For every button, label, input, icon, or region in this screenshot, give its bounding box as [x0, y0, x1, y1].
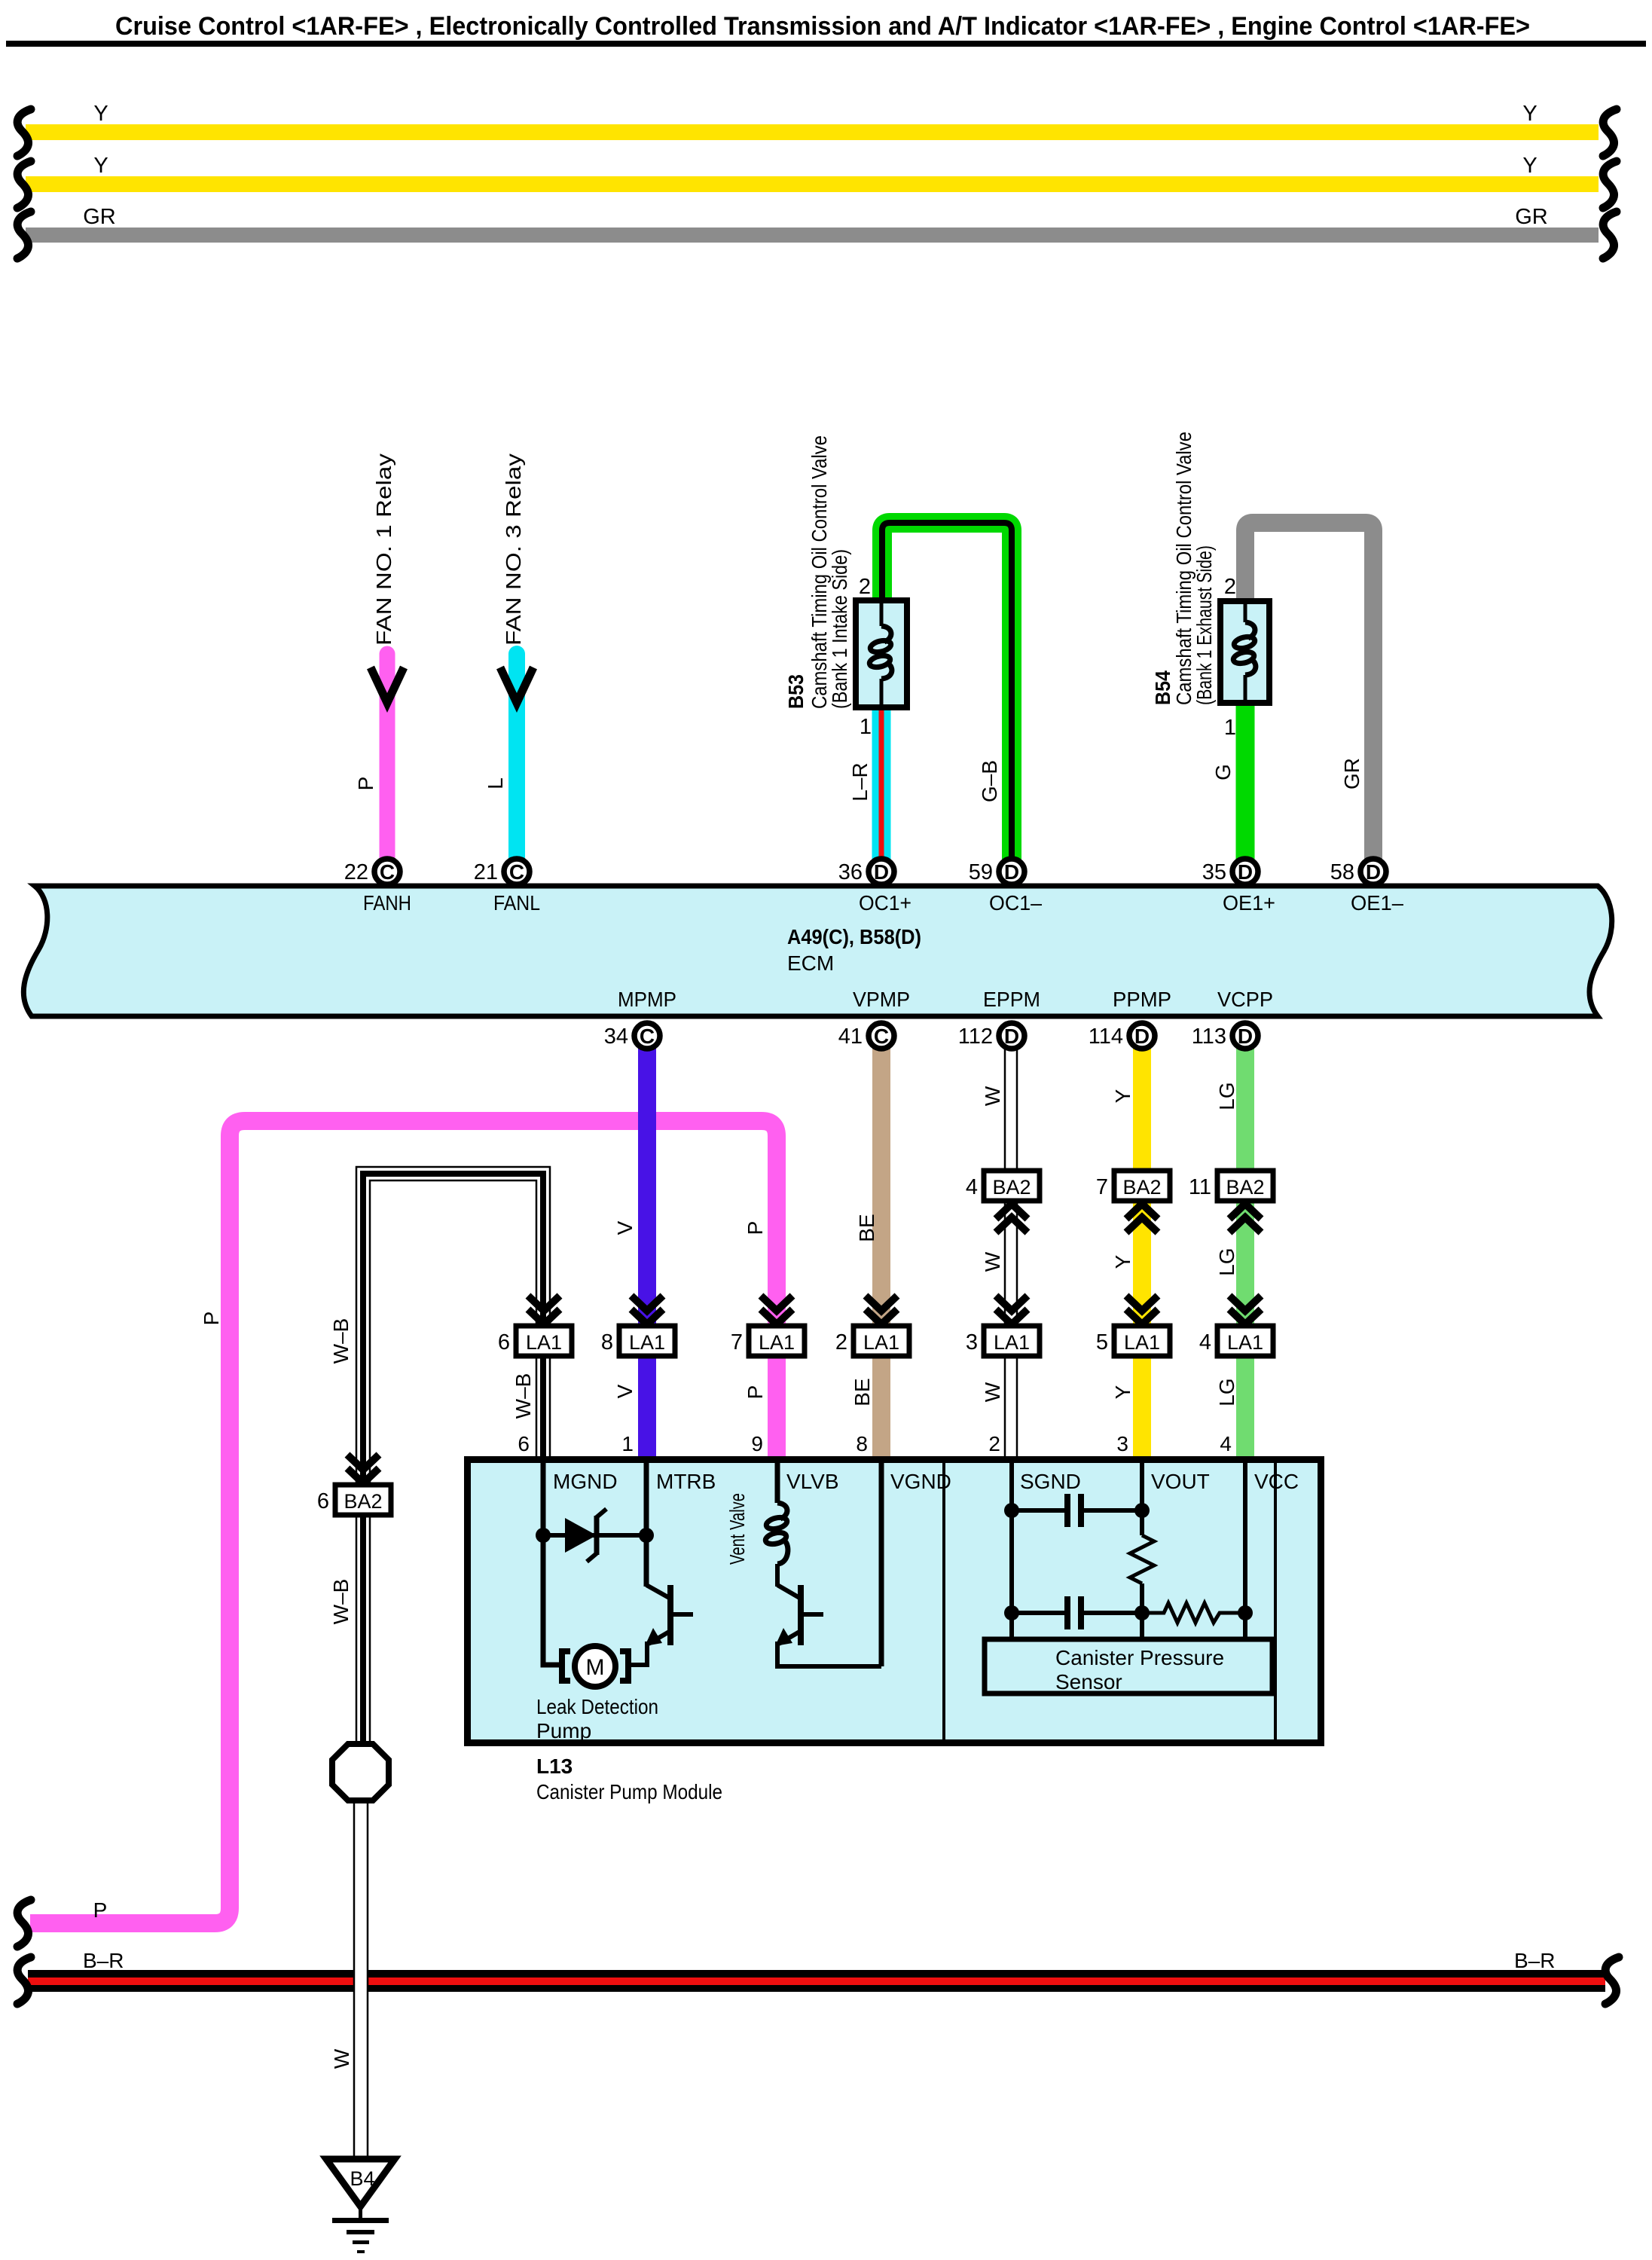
label GR (bus left): [83, 205, 116, 229]
svg-text:FANH: FANH: [363, 891, 411, 915]
connector BA2 pin 11 (LG): [1189, 1171, 1273, 1232]
svg-text:34: 34: [604, 1025, 628, 1049]
connector LA1 pin 3 (W): [966, 1296, 1040, 1356]
svg-text:21: 21: [474, 860, 498, 884]
svg-text:MTRB: MTRB: [656, 1470, 716, 1493]
ECM pin 22 C FANH: [344, 859, 400, 884]
junction dot VCC-R2: [1238, 1605, 1253, 1620]
label SGND: [1020, 1470, 1081, 1493]
label PPMP: [1113, 988, 1171, 1011]
transistor Q1 (pump driver): [630, 1585, 693, 1665]
svg-text:59: 59: [969, 860, 993, 884]
label Camshaft Timing Oil Control Valve (B54): [1172, 432, 1195, 705]
label P (rotated, left magenta leg): [200, 1312, 223, 1326]
svg-text:W: W: [981, 1382, 1004, 1402]
svg-text:Y: Y: [1111, 1254, 1134, 1269]
wire SGND internal: [1009, 1462, 1014, 1642]
wire L (FAN NO.3 Relay to ECM pin 21): [508, 654, 525, 872]
svg-text:G: G: [1211, 764, 1235, 780]
pin 9 label (VLVB): [751, 1432, 763, 1455]
svg-text:Y: Y: [93, 102, 108, 126]
label W-B (left leg lower): [329, 1579, 353, 1625]
label W above BA2 no4: [981, 1086, 1004, 1106]
pin 1 label B54: [1224, 716, 1236, 740]
wire VGND internal: [879, 1462, 884, 1666]
label BE below LA1 no2: [850, 1378, 874, 1406]
label W-B (left leg upper): [329, 1318, 353, 1364]
ECM pin 59 D OC1-: [969, 859, 1024, 884]
svg-text:W: W: [981, 1251, 1004, 1272]
svg-text:Vent Valve: Vent Valve: [725, 1493, 749, 1565]
ECM pin 113 D VCPP: [1192, 1023, 1258, 1049]
svg-text:MPMP: MPMP: [618, 988, 676, 1011]
svg-text:GR: GR: [83, 205, 116, 229]
svg-text:W–B: W–B: [329, 1318, 353, 1364]
arrowhead from FAN NO.1 Relay: [371, 667, 404, 703]
label VCC: [1254, 1470, 1299, 1493]
label Bank 1 Intake Side: [828, 549, 851, 709]
svg-text:VPMP: VPMP: [853, 988, 910, 1011]
svg-text:113: 113: [1192, 1025, 1226, 1049]
svg-text:D: D: [1238, 860, 1253, 884]
label P (bottom magenta horizontal): [93, 1898, 108, 1922]
ECM designation label: [787, 925, 921, 948]
label GR (bus right): [1515, 205, 1548, 229]
svg-text:36: 36: [838, 860, 863, 884]
label W-B (below LA1 no6): [511, 1373, 535, 1419]
svg-text:G–B: G–B: [978, 760, 1001, 802]
svg-text:1: 1: [621, 1432, 634, 1455]
label Y above BA2 no7: [1111, 1089, 1134, 1103]
label OE1+: [1223, 891, 1275, 915]
svg-text:58: 58: [1330, 860, 1354, 884]
svg-text:P: P: [200, 1312, 223, 1326]
wire V (ECM pin 34 MPMP to module MTRB): [638, 1036, 656, 1458]
svg-text:D: D: [1134, 1025, 1150, 1048]
off-page brace magenta P left: [17, 1900, 31, 1947]
label BE above LA1 no2: [855, 1214, 878, 1241]
label Camshaft Timing Oil Control Valve (B53): [808, 435, 831, 709]
ECM pin 112 D EPPM: [958, 1023, 1024, 1049]
svg-text:D: D: [1004, 860, 1019, 884]
off-page brace B-R right: [1605, 1957, 1619, 2004]
ground B4: [326, 2159, 395, 2253]
capacitor C1 (SGND-VOUT upper): [1012, 1494, 1142, 1527]
svg-text:LA1: LA1: [994, 1331, 1030, 1354]
junction dot MTRB-zener: [639, 1528, 654, 1543]
ECM pin 35 D OE1+: [1202, 859, 1258, 884]
svg-text:5: 5: [1096, 1330, 1108, 1354]
wire W (octagon to ground B4): [354, 1799, 368, 2159]
svg-text:2: 2: [1224, 575, 1236, 599]
wire VOUT internal: [1140, 1462, 1144, 1642]
svg-text:11: 11: [1189, 1175, 1211, 1199]
svg-text:V: V: [613, 1384, 637, 1398]
label OC1+: [859, 891, 912, 915]
zener diode D1: [565, 1509, 606, 1562]
svg-text:LA1: LA1: [1124, 1331, 1160, 1354]
svg-text:2: 2: [988, 1432, 1000, 1455]
pin 2 label (SGND): [988, 1432, 1000, 1455]
label V below LA1 no8: [613, 1384, 637, 1398]
svg-text:C: C: [874, 1025, 889, 1048]
capacitor C2 (SGND-VOUT lower): [1012, 1596, 1142, 1629]
svg-text:LG: LG: [1215, 1378, 1238, 1406]
off-page brace GR bus left: [17, 212, 31, 258]
wire Y (ECM pin 114 PPMP to module VOUT): [1133, 1036, 1151, 1458]
pin 1 label (MTRB): [621, 1432, 634, 1455]
junction dot MGND-zener: [536, 1528, 551, 1543]
pin 6 label (MGND): [518, 1432, 530, 1455]
ECM pin 114 D PPMP: [1089, 1023, 1155, 1049]
svg-text:3: 3: [966, 1330, 978, 1354]
label VCPP: [1217, 988, 1273, 1011]
label VLVB: [786, 1470, 839, 1493]
svg-text:VCC: VCC: [1254, 1470, 1299, 1493]
label L13: [536, 1755, 573, 1778]
connector LA1 pin 8 (V): [601, 1296, 675, 1356]
wire MTRB internal: [644, 1462, 649, 1587]
svg-text:BE: BE: [855, 1214, 878, 1241]
svg-text:BE: BE: [850, 1378, 874, 1406]
svg-text:LG: LG: [1215, 1082, 1238, 1110]
wire W-B (module MGND pin 6 up over and down to ground): [356, 1167, 550, 1772]
svg-text:4: 4: [966, 1175, 978, 1199]
transistor Q2 (vent valve driver): [775, 1585, 881, 1666]
label VPMP: [853, 988, 910, 1011]
label L (FANL wire): [484, 777, 507, 789]
svg-text:22: 22: [344, 860, 368, 884]
connector BA2 pin 6 (W-B ground run): [317, 1455, 391, 1515]
wire GR bus: [26, 228, 1599, 243]
svg-text:M: M: [586, 1655, 605, 1680]
label B54: [1151, 670, 1174, 705]
label Y (bus 2 left): [93, 154, 108, 178]
label P below LA1 no7: [744, 1385, 767, 1400]
ECM pin 36 D OC1+: [838, 859, 894, 884]
svg-text:P: P: [744, 1221, 767, 1235]
svg-text:L–R: L–R: [848, 762, 872, 801]
svg-text:SGND: SGND: [1020, 1470, 1081, 1493]
module divider 1: [942, 1463, 945, 1739]
pin 1 label B53: [860, 715, 872, 739]
svg-text:P: P: [744, 1385, 767, 1400]
svg-text:Sensor: Sensor: [1055, 1670, 1122, 1693]
svg-text:Canister Pressure: Canister Pressure: [1055, 1646, 1224, 1669]
pin 2 label B53: [859, 575, 871, 599]
label Bank 1 Exhaust Side: [1192, 545, 1216, 705]
label G-B: [978, 760, 1001, 802]
label W between BA2 and LA1: [981, 1251, 1004, 1272]
wire G (B54 pin 1 to ECM pin 35): [1236, 704, 1255, 872]
solenoid valve B53 Camshaft Timing Oil Control Valve (Bank 1 Intake Side): [856, 600, 907, 707]
svg-text:6: 6: [518, 1432, 530, 1455]
wire W (ECM pin 112 EPPM to module SGND): [1005, 1036, 1017, 1458]
wire BE (ECM pin 41 VPMP to module VGND): [872, 1036, 890, 1458]
label L-R: [848, 762, 872, 801]
svg-text:LA1: LA1: [759, 1331, 795, 1354]
label EPPM: [983, 988, 1040, 1011]
svg-text:LA1: LA1: [526, 1331, 562, 1354]
ECM A49(C) B58(D) box: [23, 886, 1611, 1016]
svg-text:L: L: [484, 777, 507, 789]
vent valve coil: [765, 1462, 789, 1587]
svg-text:Y: Y: [1111, 1089, 1134, 1103]
title: [115, 12, 1530, 41]
wire G-B (B53 pin 2 to ECM pin 59): [882, 523, 1012, 872]
label OE1-: [1351, 891, 1403, 915]
wire zener link MGND-MTRB: [543, 1533, 646, 1538]
svg-text:C: C: [640, 1025, 655, 1048]
svg-text:1: 1: [1224, 716, 1236, 740]
off-page brace bus2 right: [1603, 161, 1617, 208]
svg-text:(Bank 1 Exhaust Side): (Bank 1 Exhaust Side): [1192, 545, 1216, 705]
svg-text:Y: Y: [1522, 154, 1537, 178]
connector LA1 pin 7 (P): [731, 1296, 805, 1356]
label P above LA1 no7: [744, 1221, 767, 1235]
label W (ground wire): [330, 2048, 353, 2069]
svg-text:114: 114: [1089, 1025, 1123, 1049]
label FAN NO. 3 Relay: [502, 454, 525, 646]
svg-text:BA2: BA2: [1226, 1176, 1264, 1199]
svg-text:B–R: B–R: [1514, 1949, 1555, 1972]
label G: [1211, 764, 1235, 780]
label FANL: [493, 891, 540, 915]
connector LA1 pin 2 (BE): [835, 1296, 909, 1356]
svg-text:B54: B54: [1151, 670, 1174, 705]
off-page brace B-R left: [17, 1957, 31, 2004]
ECM pin 34 C MPMP: [604, 1023, 660, 1049]
svg-text:1: 1: [860, 715, 872, 739]
svg-text:B53: B53: [784, 674, 808, 709]
wire VCC internal: [1243, 1462, 1247, 1642]
svg-text:112: 112: [958, 1025, 993, 1049]
label LG above BA2 no11: [1215, 1082, 1238, 1110]
svg-text:41: 41: [838, 1025, 863, 1049]
resistor R1 (VOUT vertical): [1130, 1535, 1154, 1584]
svg-text:BA2: BA2: [1122, 1176, 1161, 1199]
label GR: [1340, 758, 1363, 789]
wire Y bus 1: [26, 124, 1599, 140]
svg-text:L13: L13: [536, 1755, 573, 1778]
label W below LA1 no3: [981, 1382, 1004, 1402]
octagon noise filter on ground wire: [332, 1744, 389, 1800]
label FANH: [363, 891, 411, 915]
label LG between BA2 and LA1: [1215, 1248, 1238, 1275]
svg-text:D: D: [874, 860, 889, 884]
connector BA2 pin 4 (W): [966, 1171, 1040, 1232]
svg-text:Y: Y: [1522, 102, 1537, 126]
svg-text:C: C: [509, 860, 524, 884]
svg-text:VCPP: VCPP: [1217, 988, 1273, 1011]
svg-text:3: 3: [1116, 1432, 1128, 1455]
svg-text:LG: LG: [1215, 1248, 1238, 1275]
module divider 2: [1274, 1463, 1277, 1739]
svg-text:9: 9: [751, 1432, 763, 1455]
svg-text:8: 8: [856, 1432, 868, 1455]
label B53: [784, 674, 808, 709]
junction dot SGND-C1: [1004, 1503, 1019, 1518]
label P (FANH wire): [354, 777, 377, 791]
label LG below LA1 no4: [1215, 1378, 1238, 1406]
motor M Leak Detection Pump: [562, 1646, 628, 1687]
off-page brace GR bus right: [1603, 212, 1617, 258]
junction dot VOUT-C1: [1134, 1503, 1150, 1518]
off-page brace bus1 left: [17, 109, 31, 156]
svg-text:VGND: VGND: [890, 1470, 951, 1493]
svg-text:Cruise Control <1AR-FE> , Elec: Cruise Control <1AR-FE> , Electronically…: [115, 12, 1530, 41]
wire LG (ECM pin 113 VCPP to module VCC): [1236, 1036, 1254, 1458]
svg-text:OC1+: OC1+: [859, 891, 912, 915]
label VGND: [890, 1470, 951, 1493]
label Y (bus 1 left): [93, 102, 108, 126]
svg-text:7: 7: [1096, 1175, 1108, 1199]
label Y below LA1 no5: [1111, 1385, 1134, 1399]
svg-text:OE1+: OE1+: [1223, 891, 1275, 915]
svg-text:4: 4: [1199, 1330, 1211, 1354]
label OC1-: [989, 891, 1042, 915]
ECM pin 41 C VPMP: [838, 1023, 894, 1049]
svg-text:BA2: BA2: [992, 1176, 1031, 1199]
pin 4 label (VCC): [1220, 1432, 1232, 1455]
pin 2 label B54: [1224, 575, 1236, 599]
svg-text:GR: GR: [1515, 205, 1548, 229]
svg-text:B–R: B–R: [83, 1949, 124, 1972]
pin 8 label (VGND): [856, 1432, 868, 1455]
wire Y bus 2: [26, 176, 1599, 192]
svg-text:7: 7: [731, 1330, 743, 1354]
svg-text:W: W: [330, 2048, 353, 2069]
svg-text:Y: Y: [1111, 1385, 1134, 1399]
off-page brace bus1 right: [1603, 109, 1617, 156]
label VOUT: [1151, 1470, 1210, 1493]
svg-text:EPPM: EPPM: [983, 988, 1040, 1011]
label B-R right: [1514, 1949, 1555, 1972]
pin 3 label (VOUT): [1116, 1432, 1128, 1455]
svg-text:B4: B4: [350, 2167, 374, 2190]
svg-text:8: 8: [601, 1330, 613, 1354]
ECM pin 58 D OE1-: [1330, 859, 1386, 884]
svg-text:C: C: [380, 860, 395, 884]
connector BA2 pin 7 (Y): [1096, 1171, 1170, 1232]
wire B-R bus black outer: [28, 1970, 1605, 1992]
svg-text:D: D: [1004, 1025, 1019, 1048]
svg-text:V: V: [613, 1220, 637, 1235]
svg-text:GR: GR: [1340, 758, 1363, 789]
solenoid valve B54 Camshaft Timing Oil Control Valve (Bank 1 Exhaust Side): [1220, 601, 1269, 703]
svg-text:A49(C), B58(D): A49(C), B58(D): [787, 925, 921, 948]
svg-text:FANL: FANL: [493, 891, 540, 915]
svg-text:D: D: [1238, 1025, 1253, 1048]
label FAN NO. 1 Relay: [372, 454, 395, 646]
label Canister Pump Module: [536, 1780, 722, 1803]
svg-text:P: P: [93, 1898, 108, 1922]
label Leak Detection Pump: [536, 1695, 658, 1742]
wire P (FAN NO.1 Relay to ECM pin 22): [380, 654, 395, 872]
wire P (VLVB pin 9 run to off-page, magenta): [30, 1121, 777, 1923]
label MTRB: [656, 1470, 716, 1493]
svg-text:Y: Y: [93, 154, 108, 178]
svg-text:2: 2: [859, 575, 871, 599]
svg-text:Pump: Pump: [536, 1719, 591, 1742]
svg-text:LA1: LA1: [863, 1331, 899, 1354]
svg-text:FAN NO. 3 Relay: FAN NO. 3 Relay: [502, 454, 525, 646]
svg-text:LA1: LA1: [1227, 1331, 1263, 1354]
svg-text:2: 2: [835, 1330, 847, 1354]
svg-text:6: 6: [317, 1489, 329, 1513]
label MGND: [553, 1470, 618, 1493]
svg-text:35: 35: [1202, 860, 1226, 884]
svg-text:BA2: BA2: [344, 1490, 382, 1513]
wire GR (B54 pin 2 to ECM pin 58): [1245, 523, 1373, 872]
connector LA1 pin 5 (Y): [1096, 1296, 1170, 1356]
title underline: [6, 41, 1646, 47]
connector LA1 pin 6 (W-B): [498, 1296, 572, 1356]
label Y (bus 1 right): [1522, 102, 1537, 126]
svg-text:W–B: W–B: [329, 1579, 353, 1625]
wire MGND internal: [543, 1462, 560, 1665]
svg-text:D: D: [1366, 860, 1381, 884]
Canister Pressure Sensor box: [985, 1639, 1272, 1693]
connector LA1 pin 4 (LG): [1199, 1296, 1273, 1356]
svg-text:VOUT: VOUT: [1151, 1470, 1210, 1493]
svg-text:ECM: ECM: [787, 951, 834, 975]
svg-text:FAN NO. 1 Relay: FAN NO. 1 Relay: [372, 454, 395, 646]
off-page brace bus2 left: [17, 161, 31, 208]
svg-text:LA1: LA1: [629, 1331, 665, 1354]
svg-text:Leak Detection: Leak Detection: [536, 1695, 658, 1718]
svg-text:W: W: [981, 1086, 1004, 1106]
svg-text:VLVB: VLVB: [786, 1470, 839, 1493]
arrowhead from FAN NO.3 Relay: [500, 667, 533, 703]
svg-text:4: 4: [1220, 1432, 1232, 1455]
svg-text:6: 6: [498, 1330, 510, 1354]
svg-text:W–B: W–B: [511, 1373, 535, 1419]
module L13 Canister Pump Module box: [468, 1460, 1321, 1743]
label B-R left: [83, 1949, 124, 1972]
svg-text:MGND: MGND: [553, 1470, 618, 1493]
resistor R2 (VOUT-VCC horizontal): [1142, 1603, 1245, 1623]
label Y between BA2 and LA1: [1111, 1254, 1134, 1269]
svg-text:Canister Pump Module: Canister Pump Module: [536, 1780, 722, 1803]
ECM pin 21 C FANL: [474, 859, 530, 884]
ECM name label: [787, 951, 834, 975]
junction dot SGND-C2: [1004, 1605, 1019, 1620]
label MPMP: [618, 988, 676, 1011]
label V above LA1 no8: [613, 1220, 637, 1235]
label Vent Valve: [725, 1493, 749, 1565]
svg-text:(Bank 1 Intake Side): (Bank 1 Intake Side): [828, 549, 851, 709]
svg-text:OE1–: OE1–: [1351, 891, 1403, 915]
junction dot VOUT-C2: [1134, 1605, 1150, 1620]
wire L-R (B53 pin 1 to ECM pin 36): [872, 708, 891, 872]
svg-text:PPMP: PPMP: [1113, 988, 1171, 1011]
wire B-R bus red stripe: [28, 1977, 1605, 1985]
svg-text:OC1–: OC1–: [989, 891, 1042, 915]
svg-text:P: P: [354, 777, 377, 791]
label Y (bus 2 right): [1522, 154, 1537, 178]
